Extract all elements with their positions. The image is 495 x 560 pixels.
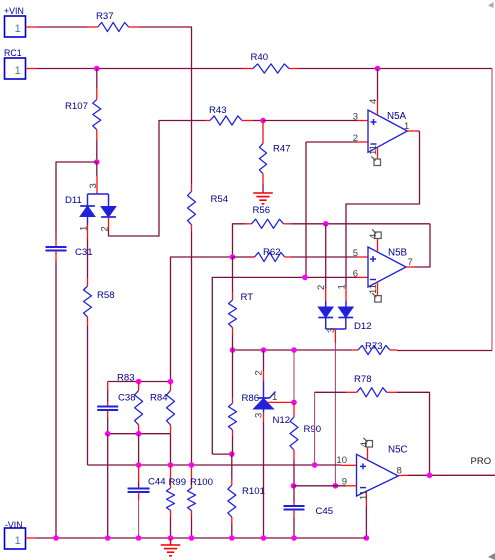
svg-text:RC1: RC1	[4, 48, 22, 58]
ground below R47	[253, 192, 273, 194]
N5C pin 4 power	[366, 441, 373, 448]
svg-text:1: 1	[79, 226, 90, 231]
svg-text:+VIN: +VIN	[4, 6, 24, 16]
resistor R83 block top rail	[108, 381, 171, 383]
resistor R90	[293, 350, 295, 402]
N5C pin 11 to rail	[365, 492, 367, 507]
svg-text:C44: C44	[148, 477, 166, 488]
node junction output-R78	[427, 473, 433, 479]
D11 pin 1	[87, 217, 89, 226]
svg-text:11: 11	[368, 284, 379, 294]
resistor R101	[228, 485, 236, 517]
R86 down through to R101	[231, 454, 233, 479]
wire RC1 bus y=68.5	[26, 68, 38, 70]
N5B pin 11 power	[377, 282, 379, 296]
corner marks	[488, 2, 494, 8]
wire R56 net y=225	[233, 224, 246, 257]
resistor R37	[98, 22, 129, 31]
pin10 horizontal line	[88, 464, 342, 466]
wire R84 down to R99	[170, 434, 172, 465]
svg-text:11: 11	[368, 145, 379, 155]
resistor R54	[191, 185, 193, 192]
N12 pin 1 wire	[267, 401, 294, 403]
D12 pin 3 wire down to pin9 line	[334, 329, 336, 343]
resistor R86	[232, 350, 234, 398]
node junction R107-C31-D11	[94, 159, 100, 165]
svg-text:2: 2	[254, 370, 265, 375]
svg-text:-VIN: -VIN	[5, 520, 23, 530]
svg-text:R40: R40	[251, 52, 269, 63]
capacitor C38	[107, 382, 109, 391]
node junction RT top	[230, 254, 236, 260]
D12 bottom bar pin3	[326, 328, 346, 330]
svg-text:R90: R90	[304, 424, 322, 435]
wire R37 right then down to R54	[129, 26, 139, 28]
svg-text:R78: R78	[354, 374, 372, 385]
wire R54 down to R100 junction	[191, 232, 193, 466]
svg-text:3: 3	[353, 112, 358, 123]
svg-text:1: 1	[15, 65, 21, 77]
wire pin6 corner to R86 node	[212, 453, 232, 455]
svg-text:R83: R83	[117, 373, 135, 384]
wire R43 to N5A pin3	[263, 120, 357, 122]
svg-text:3: 3	[88, 183, 99, 188]
resistor R99	[170, 465, 172, 488]
bottom rail wire	[26, 537, 37, 539]
svg-text:R43: R43	[209, 105, 227, 116]
wire R83 down to C44	[138, 434, 140, 465]
svg-text:4: 4	[368, 99, 379, 104]
resistor R73	[352, 349, 358, 351]
svg-text:PRO: PRO	[471, 456, 492, 467]
svg-text:R86: R86	[242, 393, 260, 404]
node junction N5A pin4	[375, 66, 381, 72]
svg-text:R62: R62	[263, 247, 281, 258]
node junction RC1-R107	[94, 66, 100, 72]
svg-text:R101: R101	[242, 486, 265, 497]
node junction N12 pin2	[261, 347, 267, 353]
node junction D12pin3-pin9	[333, 483, 339, 489]
node junction R78 corner bottom	[312, 462, 318, 468]
N5A pin 4	[377, 69, 379, 101]
resistor R100	[191, 465, 193, 488]
node junction RT-R86	[230, 347, 236, 353]
node junction R83 bottom	[136, 431, 142, 437]
node junction R90-C45 pin9	[291, 483, 297, 489]
wire to C31	[56, 162, 97, 239]
svg-text:C45: C45	[316, 506, 334, 517]
dual diode D11	[96, 162, 98, 176]
wire N5A pin2 down to pin6 line	[305, 142, 307, 277]
resistor R107	[96, 69, 98, 89]
N5B output pin7	[406, 266, 414, 268]
N5A output pin1 wire to D12 pin1	[407, 130, 419, 132]
svg-text:2: 2	[353, 133, 358, 144]
capacitor C31	[55, 239, 57, 247]
resistor R47	[262, 121, 264, 144]
wire +VIN to R37	[26, 26, 38, 28]
capacitor C44	[138, 465, 140, 482]
resistor R40	[243, 68, 253, 70]
svg-text:2: 2	[100, 226, 111, 231]
wire R56 to N5B output	[291, 223, 430, 225]
svg-text:1: 1	[15, 535, 21, 547]
svg-text:1: 1	[337, 284, 348, 289]
svg-text:RT: RT	[241, 292, 254, 303]
svg-text:N12: N12	[273, 415, 291, 426]
connector +VIN	[5, 16, 26, 37]
D12 right diode	[345, 301, 347, 307]
svg-text:5: 5	[353, 248, 358, 259]
svg-text:R73: R73	[365, 341, 383, 352]
resistor R84	[170, 382, 172, 391]
node junction R84 top	[168, 379, 174, 385]
D12 pin 2 wire	[325, 224, 327, 288]
connector RC1	[5, 58, 26, 79]
svg-text:R37: R37	[96, 11, 114, 22]
wire N5B pin5 net y=257	[171, 257, 233, 382]
N5A pin 11 power	[377, 148, 379, 159]
resistor R58	[87, 278, 89, 286]
node junction N5C pin11 rail	[364, 535, 370, 541]
svg-text:R47: R47	[273, 144, 291, 155]
node junction C38 bottom	[105, 431, 111, 437]
dual diode D12	[325, 301, 327, 307]
wire C38 down to rail	[107, 434, 109, 538]
node junction R83 top	[136, 379, 142, 385]
node junction R90 top	[291, 347, 297, 353]
svg-text:2: 2	[316, 285, 327, 290]
node junction R43-R47	[260, 118, 266, 124]
wire R40 to right edge and down to R73	[299, 68, 492, 70]
svg-text:R56: R56	[253, 205, 271, 216]
shunt reference N12	[263, 350, 265, 371]
svg-text:1: 1	[272, 392, 277, 403]
svg-text:10: 10	[336, 455, 347, 466]
node junction R86 bottom	[229, 451, 235, 457]
op-amp N5C	[357, 454, 399, 496]
svg-text:4: 4	[359, 442, 370, 447]
svg-text:N5C: N5C	[388, 445, 408, 456]
resistor R78	[314, 392, 316, 465]
N5B pin 4 power	[375, 232, 382, 239]
svg-text:1: 1	[15, 23, 21, 35]
ground symbol	[170, 538, 172, 545]
capacitor C45	[293, 486, 295, 502]
svg-text:R58: R58	[97, 290, 115, 301]
op-amp N5B	[368, 247, 406, 287]
N12 pin 3 wire	[263, 409, 265, 412]
svg-text:6: 6	[353, 269, 358, 280]
svg-text:R107: R107	[65, 101, 88, 112]
wire R78 to output	[397, 392, 430, 475]
connector -VIN	[5, 528, 26, 549]
D11 pin 2 wire to R43	[108, 217, 110, 230]
node junction R99 top	[168, 462, 174, 468]
svg-text:R54: R54	[211, 194, 229, 205]
svg-text:4: 4	[368, 234, 379, 239]
svg-text:3: 3	[254, 413, 265, 418]
resistor RT	[232, 257, 234, 292]
node junction C44 top	[136, 462, 142, 468]
svg-text:R99: R99	[169, 477, 187, 488]
svg-text:R100: R100	[190, 477, 213, 488]
resistor R56	[245, 223, 252, 225]
svg-text:C31: C31	[75, 247, 93, 258]
svg-text:D12: D12	[354, 321, 372, 332]
svg-text:N5B: N5B	[388, 247, 408, 258]
wire y=350 net	[233, 349, 353, 351]
svg-text:11: 11	[359, 490, 370, 500]
wire N5B pin6 net y=277.4	[212, 277, 357, 454]
svg-text:D11: D11	[65, 195, 82, 206]
N5C output wire PRO	[399, 474, 409, 476]
resistor R43	[205, 120, 210, 122]
svg-text:C38: C38	[118, 393, 136, 404]
block bottom rail	[108, 433, 171, 435]
node junction R100 top	[189, 462, 195, 468]
node junction N12 pin1 - R90	[291, 400, 297, 406]
svg-text:3: 3	[326, 328, 337, 333]
svg-text:R84: R84	[150, 393, 168, 404]
wire N5A pin2	[306, 141, 357, 143]
N5C pin 9 line	[294, 485, 347, 487]
resistor R62	[233, 256, 255, 258]
node junction D12 pin2	[323, 221, 329, 227]
wire R58 net / N5C pin10 line	[87, 239, 89, 278]
rail junction dots	[53, 535, 59, 541]
node junction pin6-N5ApIn2wire	[302, 275, 308, 281]
resistor R83	[138, 382, 140, 391]
op-amp N5A	[368, 110, 407, 152]
